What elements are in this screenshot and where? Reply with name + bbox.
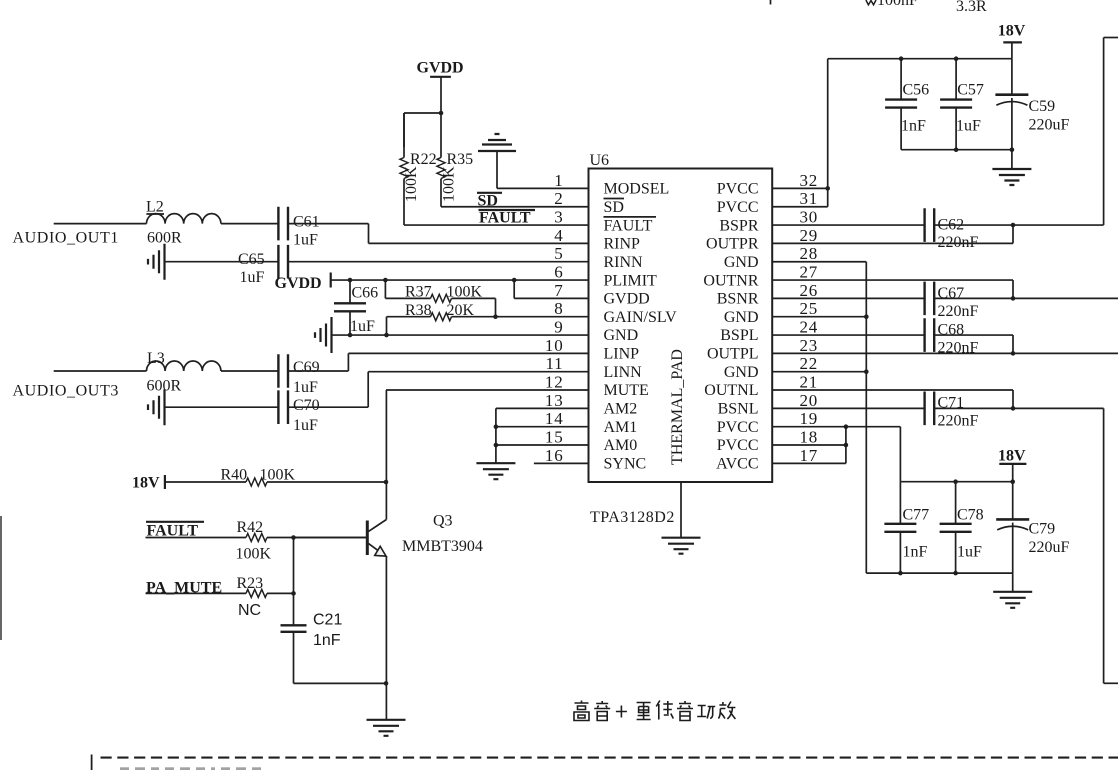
wire pin 29 OUTPR bbox=[772, 225, 1013, 243]
svg-text:C59: C59 bbox=[1029, 98, 1056, 115]
svg-text:18V: 18V bbox=[998, 22, 1026, 39]
wire cap bank top bus bbox=[900, 479, 1015, 484]
pin number 18 bbox=[800, 428, 819, 447]
svg-text:20: 20 bbox=[800, 391, 819, 410]
svg-text:PLIMIT: PLIMIT bbox=[604, 272, 658, 289]
svg-text:OUTPR: OUTPR bbox=[706, 236, 759, 253]
pin number 14 bbox=[545, 409, 564, 428]
svg-text:BSPL: BSPL bbox=[720, 327, 758, 344]
svg-text:R38: R38 bbox=[405, 302, 432, 319]
svg-text:1nF: 1nF bbox=[901, 118, 926, 135]
svg-text:21: 21 bbox=[800, 373, 819, 392]
svg-text:18: 18 bbox=[800, 428, 819, 447]
svg-text:AM2: AM2 bbox=[604, 401, 638, 418]
svg-text:AM0: AM0 bbox=[604, 437, 638, 454]
pin 24 name BSPL bbox=[720, 327, 758, 344]
node R37 branch junction bbox=[383, 278, 388, 283]
capacitor C67 220nF bbox=[925, 282, 979, 320]
svg-text:14: 14 bbox=[545, 409, 564, 428]
resistor R42 100K bbox=[146, 519, 368, 563]
capacitor C56 1nF bbox=[885, 59, 929, 150]
pin number 12 bbox=[545, 373, 564, 392]
capacitor C59 220uF bbox=[995, 59, 1069, 150]
svg-text:THERMAL_PAD: THERMAL_PAD bbox=[669, 349, 686, 465]
node pin7 branch junction bbox=[512, 278, 517, 283]
wire C69 to pin 10 LINP bbox=[288, 353, 589, 371]
pin number 10 bbox=[545, 336, 564, 355]
svg-text:100nF: 100nF bbox=[877, 0, 918, 9]
svg-text:1nF: 1nF bbox=[313, 632, 341, 649]
svg-text:L2: L2 bbox=[146, 199, 164, 216]
svg-text:GND: GND bbox=[724, 254, 759, 271]
svg-text:LINP: LINP bbox=[604, 346, 640, 363]
svg-text:2: 2 bbox=[554, 189, 563, 208]
svg-text:C21: C21 bbox=[313, 612, 342, 629]
wire pin 28 GND bus bbox=[772, 262, 866, 573]
pin number 24 bbox=[800, 318, 819, 337]
pin 19 name PVCC bbox=[717, 419, 759, 436]
power 18V (top) bbox=[998, 22, 1026, 58]
svg-text:OUTPL: OUTPL bbox=[707, 346, 759, 363]
svg-text:C57: C57 bbox=[957, 82, 984, 99]
svg-text:1uF: 1uF bbox=[350, 318, 375, 335]
wire fragment (top edge tick) bbox=[770, 0, 772, 5]
wire pin 1 bbox=[497, 151, 589, 188]
power GVDD (pin 6) bbox=[275, 273, 331, 293]
pin 14 name AM1 bbox=[604, 419, 638, 436]
svg-text:18V: 18V bbox=[132, 475, 160, 492]
wire thermal pad stem bbox=[680, 482, 682, 538]
wire 18V top bus bbox=[828, 56, 1012, 61]
svg-text:BSNL: BSNL bbox=[718, 401, 759, 418]
pin number 2 bbox=[554, 189, 563, 208]
wire pin 9 GND row bbox=[332, 333, 589, 338]
svg-text:GVDD: GVDD bbox=[275, 275, 322, 292]
svg-text:GVDD: GVDD bbox=[417, 60, 464, 77]
svg-text:1uF: 1uF bbox=[293, 379, 318, 396]
power GVDD (top) bbox=[417, 60, 464, 77]
capacitor C66 1uF bbox=[334, 280, 378, 335]
pin number 15 bbox=[545, 428, 564, 447]
svg-text:18V: 18V bbox=[998, 447, 1026, 464]
ground (C70) bbox=[148, 389, 165, 425]
wire pin 20 BSNL bbox=[772, 407, 924, 409]
svg-text:C61: C61 bbox=[293, 214, 320, 231]
pin 32 name PVCC bbox=[717, 181, 759, 198]
svg-text:25: 25 bbox=[800, 299, 819, 318]
wire C70 to pin 11 LINN bbox=[288, 372, 589, 408]
pin 23 name OUTPL bbox=[707, 346, 759, 363]
capacitor C57 1uF bbox=[940, 59, 984, 150]
pin number 28 bbox=[800, 244, 819, 263]
svg-text:100K: 100K bbox=[236, 546, 272, 563]
wire AUDIO_OUT1 bbox=[54, 223, 147, 225]
pin number 19 bbox=[800, 409, 819, 428]
capacitor C79 220uF bbox=[996, 482, 1069, 573]
svg-text:C56: C56 bbox=[903, 82, 930, 99]
svg-text:1nF: 1nF bbox=[903, 544, 928, 561]
svg-text:SD: SD bbox=[478, 192, 498, 209]
value label TPA3128D2 bbox=[590, 509, 675, 526]
pin number 16 bbox=[545, 446, 564, 465]
pin number 30 bbox=[800, 208, 819, 227]
pin number 29 bbox=[800, 226, 819, 245]
resistor R35 100K bbox=[437, 113, 473, 207]
svg-text:C79: C79 bbox=[1029, 521, 1056, 538]
pin number 21 bbox=[800, 373, 819, 392]
resistor R23 NC bbox=[146, 575, 296, 619]
wire C68 to OUTPL net bbox=[935, 335, 1016, 356]
pin number 4 bbox=[554, 226, 563, 245]
svg-text:BSNR: BSNR bbox=[717, 291, 759, 308]
svg-text:1: 1 bbox=[554, 171, 563, 190]
wire pin 25 GND bbox=[772, 314, 868, 319]
pin number 20 bbox=[800, 391, 819, 410]
wire pin 22 GND bbox=[772, 369, 868, 374]
svg-text:RINP: RINP bbox=[604, 236, 641, 253]
pin number 1 bbox=[554, 171, 563, 190]
wire pin 30 BSPR bbox=[772, 224, 924, 226]
capacitor C71 220nF bbox=[925, 392, 979, 430]
wire C61 to pin 4 RINP bbox=[288, 224, 589, 244]
svg-text:220uF: 220uF bbox=[1029, 117, 1070, 134]
pin number 31 bbox=[800, 189, 819, 208]
svg-text:PVCC: PVCC bbox=[717, 199, 759, 216]
svg-text:22: 22 bbox=[800, 354, 819, 373]
svg-text:R37: R37 bbox=[405, 284, 432, 301]
svg-text:9: 9 bbox=[554, 318, 563, 337]
svg-text:GND: GND bbox=[724, 309, 759, 326]
svg-text:1uF: 1uF bbox=[240, 269, 265, 286]
svg-text:MMBT3904: MMBT3904 bbox=[402, 538, 483, 555]
svg-text:30: 30 bbox=[800, 208, 819, 227]
svg-text:15: 15 bbox=[545, 428, 564, 447]
capacitor C21 1nF bbox=[281, 538, 343, 684]
wire PVCC drop to cap bank bbox=[899, 427, 901, 482]
svg-text:GAIN/SLV: GAIN/SLV bbox=[604, 309, 678, 326]
inductor L2 600R bbox=[146, 199, 221, 247]
svg-text:RINN: RINN bbox=[604, 254, 644, 271]
wire gnd to C65 bbox=[165, 261, 279, 263]
pin 8 name GAIN/SLV bbox=[604, 309, 678, 326]
pin 9 name GND bbox=[604, 327, 639, 344]
svg-text:R40: R40 bbox=[221, 467, 248, 484]
svg-text:FAULT: FAULT bbox=[479, 209, 531, 226]
svg-text:R23: R23 bbox=[237, 575, 264, 592]
svg-text:C67: C67 bbox=[938, 285, 965, 302]
svg-text:OUTNL: OUTNL bbox=[704, 382, 758, 399]
node AUDIO_OUT1 bbox=[13, 230, 119, 247]
pin 18 name PVCC bbox=[717, 437, 759, 454]
wire pin 19 PVCC bbox=[772, 424, 900, 429]
wire C62 to OUTPR net bbox=[935, 38, 1118, 228]
pin number 26 bbox=[800, 281, 819, 300]
svg-text:8: 8 bbox=[554, 299, 563, 318]
svg-text:1uF: 1uF bbox=[956, 118, 981, 135]
wire pins 13-15 AM2/AM1/AM0 bbox=[494, 408, 589, 463]
wire C65 to pin 5 RINN bbox=[288, 261, 589, 263]
capacitor C78 1uF bbox=[940, 482, 984, 573]
svg-text:29: 29 bbox=[800, 226, 819, 245]
wire R38 to ground bbox=[384, 317, 389, 338]
pin 13 name AM2 bbox=[604, 401, 638, 418]
svg-text:U6: U6 bbox=[590, 152, 610, 169]
wire C67 to OUTNR net (right) bbox=[935, 297, 1118, 299]
capacitor C68 220nF bbox=[925, 318, 979, 356]
wire pin 12 MUTE to Q3 collector bbox=[386, 390, 589, 500]
pin 17 name AVCC bbox=[716, 456, 758, 473]
wire pin 23 OUTPL (right) bbox=[772, 352, 1118, 354]
resistor R38 20K bbox=[387, 298, 589, 320]
pin 20 name BSNL bbox=[718, 401, 759, 418]
pin 27 name OUTNR bbox=[703, 272, 758, 289]
net label FAULT (Q3) bbox=[146, 522, 204, 540]
svg-text:L3: L3 bbox=[147, 350, 165, 367]
pin 1 name MODSEL bbox=[604, 181, 670, 198]
svg-text:R22: R22 bbox=[410, 151, 437, 168]
pin 15 name AM0 bbox=[604, 437, 638, 454]
capacitor C69 1uF bbox=[278, 354, 319, 396]
wire dashed section border bbox=[92, 755, 1118, 770]
ground (Q3 emitter) bbox=[367, 720, 406, 736]
svg-text:OUTNR: OUTNR bbox=[703, 272, 758, 289]
wire pin 7 GVDD bbox=[514, 280, 588, 298]
svg-text:3: 3 bbox=[554, 208, 563, 227]
svg-text:100K: 100K bbox=[447, 284, 483, 301]
pin 22 name GND bbox=[724, 364, 759, 381]
ground (top cap bank) bbox=[992, 169, 1031, 185]
svg-text:220nF: 220nF bbox=[938, 413, 979, 430]
pin 3 name FAULT bbox=[604, 217, 657, 234]
capacitor C77 1nF bbox=[884, 482, 929, 573]
pin number 27 bbox=[800, 263, 819, 282]
partial text fragment (bottom, clipped) bbox=[120, 767, 261, 770]
wire gnd to C70 bbox=[165, 406, 279, 408]
pin 4 name RINP bbox=[604, 236, 641, 253]
resistor R37 100K bbox=[385, 280, 495, 302]
pin name THERMAL_PAD bbox=[669, 349, 686, 465]
svg-text:MUTE: MUTE bbox=[604, 382, 649, 399]
svg-text:TPA3128D2: TPA3128D2 bbox=[590, 509, 675, 526]
svg-text:23: 23 bbox=[800, 336, 819, 355]
svg-text:C69: C69 bbox=[293, 359, 320, 376]
svg-text:GND: GND bbox=[604, 327, 639, 344]
svg-text:R35: R35 bbox=[447, 151, 474, 168]
capacitor C65 1uF bbox=[238, 245, 288, 286]
svg-text:1uF: 1uF bbox=[293, 417, 318, 434]
wire L2 to C61 bbox=[221, 223, 279, 225]
svg-text:PVCC: PVCC bbox=[717, 181, 759, 198]
wire emitter to ground bbox=[385, 683, 387, 719]
svg-text:SYNC: SYNC bbox=[604, 456, 647, 473]
pin number 7 bbox=[554, 281, 563, 300]
svg-text:C68: C68 bbox=[938, 322, 965, 339]
svg-text:20K: 20K bbox=[447, 302, 475, 319]
svg-text:PVCC: PVCC bbox=[717, 419, 759, 436]
svg-text:26: 26 bbox=[800, 281, 819, 300]
svg-text:C65: C65 bbox=[238, 251, 265, 268]
capacitor C61 1uF bbox=[278, 207, 319, 249]
ground (AM pins) bbox=[476, 463, 515, 479]
power 18V (cap bank) bbox=[998, 447, 1026, 481]
svg-text:12: 12 bbox=[545, 373, 564, 392]
svg-text:BSPR: BSPR bbox=[719, 217, 758, 234]
svg-text:17: 17 bbox=[800, 446, 819, 465]
svg-text:7: 7 bbox=[554, 281, 563, 300]
pin number 32 bbox=[800, 171, 819, 190]
wire GVDD stem bbox=[440, 77, 442, 113]
svg-text:100K: 100K bbox=[260, 467, 296, 484]
pin number 5 bbox=[554, 244, 563, 263]
svg-text:220nF: 220nF bbox=[938, 234, 979, 251]
ground (cap bank) bbox=[993, 592, 1032, 608]
svg-text:GND: GND bbox=[724, 364, 759, 381]
wire pin 6 PLIMIT row bbox=[331, 279, 589, 281]
svg-text:3.3R: 3.3R bbox=[956, 0, 987, 15]
svg-text:C66: C66 bbox=[352, 285, 379, 302]
ground (inverted, pin 1 MODSEL) bbox=[478, 134, 516, 151]
net label FAULT bbox=[479, 209, 536, 226]
pin 16 name SYNC bbox=[604, 456, 647, 473]
svg-text:100K: 100K bbox=[441, 166, 458, 202]
svg-text:19: 19 bbox=[800, 409, 819, 428]
ground (pin 9 GND) bbox=[315, 317, 332, 353]
value label 100nF (clipped) bbox=[877, 0, 918, 9]
wire pin 24 BSPL bbox=[772, 334, 924, 336]
node C66 top junction bbox=[348, 278, 353, 283]
wire pin 2 SD bbox=[441, 206, 589, 208]
wire pin 21 OUTNL bbox=[772, 390, 1015, 411]
wire cap bank bottom bus bbox=[866, 571, 1012, 592]
wire L3 to C69 bbox=[221, 370, 279, 372]
pin number 6 bbox=[554, 263, 563, 282]
resistor R40 100K bbox=[165, 467, 388, 487]
node R37/R38 pin 8 junction bbox=[493, 314, 498, 319]
wire left edge fragment bbox=[0, 516, 2, 640]
inductor L3 600R bbox=[147, 350, 221, 395]
svg-text:Q3: Q3 bbox=[433, 513, 453, 530]
wire C21 bottom to emitter bbox=[294, 681, 389, 686]
svg-text:1uF: 1uF bbox=[293, 232, 318, 249]
wire AUDIO_OUT3 bbox=[54, 370, 147, 372]
svg-text:220uF: 220uF bbox=[1029, 539, 1070, 556]
pin 6 name PLIMIT bbox=[604, 272, 658, 289]
resistor R22 100K bbox=[400, 113, 437, 225]
net label SD bbox=[477, 192, 502, 209]
wire top cap bank bottom bus bbox=[901, 147, 1014, 169]
capacitor C62 220nF bbox=[925, 208, 979, 251]
svg-text:R42: R42 bbox=[237, 519, 264, 536]
wire pin 3 FAULT bbox=[404, 224, 589, 226]
svg-text:5: 5 bbox=[554, 244, 563, 263]
pin number 25 bbox=[800, 299, 819, 318]
svg-text:AUDIO_OUT3: AUDIO_OUT3 bbox=[13, 383, 119, 400]
svg-text:10: 10 bbox=[545, 336, 564, 355]
pin 25 name GND bbox=[724, 309, 759, 326]
wire pin 17 AVCC bbox=[772, 427, 846, 464]
capacitor C70 1uF bbox=[278, 390, 319, 434]
net label PA_MUTE bbox=[146, 580, 222, 597]
svg-text:28: 28 bbox=[800, 244, 819, 263]
resistor fragment (top, clipped) bbox=[866, 0, 876, 5]
node GVDD branch junction bbox=[439, 111, 444, 116]
svg-text:13: 13 bbox=[545, 391, 564, 410]
pin number 11 bbox=[546, 354, 564, 373]
pin number 9 bbox=[554, 318, 563, 337]
svg-text:AM1: AM1 bbox=[604, 419, 638, 436]
pin 26 name BSNR bbox=[717, 291, 759, 308]
svg-text:11: 11 bbox=[546, 354, 564, 373]
pin number 23 bbox=[800, 336, 819, 355]
pin 29 name OUTPR bbox=[706, 236, 759, 253]
pin 28 name GND bbox=[724, 254, 759, 271]
wire pin 18 PVCC bbox=[772, 443, 848, 448]
wire pins 32/31 PVCC bbox=[772, 59, 830, 207]
ground (thermal pad) bbox=[662, 538, 701, 554]
svg-text:NC: NC bbox=[238, 602, 261, 619]
svg-text:C77: C77 bbox=[903, 507, 930, 524]
pin 31 name PVCC bbox=[717, 199, 759, 216]
value label 3.3R (clipped) bbox=[956, 0, 987, 15]
svg-text:6: 6 bbox=[554, 263, 563, 282]
svg-text:220nF: 220nF bbox=[938, 303, 979, 320]
svg-text:GVDD: GVDD bbox=[604, 291, 650, 308]
pin 5 name RINN bbox=[604, 254, 644, 271]
svg-text:C70: C70 bbox=[293, 397, 320, 414]
power 18V (left) bbox=[132, 475, 165, 492]
node AUDIO_OUT3 bbox=[13, 383, 119, 400]
op-amp U6 TPA3128D2 body bbox=[589, 152, 773, 482]
svg-text:31: 31 bbox=[800, 189, 819, 208]
pin 21 name OUTNL bbox=[704, 382, 758, 399]
ground (C65) bbox=[148, 244, 165, 280]
svg-text:LINN: LINN bbox=[604, 364, 643, 381]
wire C71 to OUTNL net (right, down) bbox=[935, 408, 1118, 683]
pin number 22 bbox=[800, 354, 819, 373]
pin number 8 bbox=[554, 299, 563, 318]
wire GVDD branch to R22 bbox=[404, 113, 441, 147]
svg-text:4: 4 bbox=[554, 226, 563, 245]
svg-text:1uF: 1uF bbox=[957, 544, 982, 561]
title 高音+重低音功放 bbox=[574, 701, 735, 721]
pin number 13 bbox=[545, 391, 564, 410]
svg-text:27: 27 bbox=[800, 263, 819, 282]
svg-text:100K: 100K bbox=[403, 166, 420, 202]
svg-text:C78: C78 bbox=[957, 507, 984, 524]
svg-text:32: 32 bbox=[800, 171, 819, 190]
pin 7 name GVDD bbox=[604, 291, 650, 308]
pin 12 name MUTE bbox=[604, 382, 649, 399]
svg-text:FAULT: FAULT bbox=[604, 217, 653, 234]
transistor Q3 MMBT3904 bbox=[294, 501, 483, 684]
wire pin 16 SYNC bbox=[534, 462, 589, 464]
wire pin 27 OUTNR bbox=[772, 280, 1015, 301]
wire pin 26 BSNR bbox=[772, 297, 924, 299]
svg-text:24: 24 bbox=[800, 318, 819, 337]
pin 10 name LINP bbox=[604, 346, 640, 363]
svg-text:AUDIO_OUT1: AUDIO_OUT1 bbox=[13, 230, 119, 247]
svg-text:PVCC: PVCC bbox=[717, 437, 759, 454]
pin number 3 bbox=[554, 208, 563, 227]
pin 11 name LINN bbox=[604, 364, 643, 381]
pin 2 name SD bbox=[604, 199, 625, 216]
pin 30 name BSPR bbox=[719, 217, 758, 234]
svg-text:16: 16 bbox=[545, 446, 564, 465]
svg-text:SD: SD bbox=[604, 199, 624, 216]
pin number 17 bbox=[800, 446, 819, 465]
svg-text:AVCC: AVCC bbox=[716, 456, 758, 473]
svg-text:MODSEL: MODSEL bbox=[604, 181, 670, 198]
